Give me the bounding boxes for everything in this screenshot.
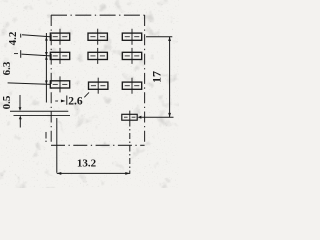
arrowheads on left dim line — [45, 37, 48, 41]
dim extension line row2 left dash — [14, 53, 18, 55]
left vertical dimension line — [45, 33, 47, 103]
terminal slot row2 col C — [122, 48, 141, 64]
dim 4.2 extension line row1 — [22, 35, 50, 37]
dim extension line row2 — [22, 54, 51, 56]
13.2 right arrowhead — [125, 172, 130, 175]
13.2 dimension line — [57, 172, 130, 174]
0.5 top arrowhead — [19, 107, 22, 111]
arrowhead at row2 down — [45, 56, 48, 60]
svg-text:6.3: 6.3 — [1, 61, 13, 75]
outline bottom edge — [51, 144, 145, 146]
svg-text:17: 17 — [149, 71, 163, 83]
17 bottom arrowhead — [168, 113, 171, 117]
bottom pin rectangle — [122, 111, 137, 121]
terminal slot row1 col A — [50, 29, 69, 45]
dim 0.5 upper line — [10, 110, 68, 112]
svg-text:2.6: 2.6 — [68, 96, 83, 108]
left dim line continuation dot — [45, 141, 47, 142]
dim 0.5 lower line (pin top extension) — [14, 115, 71, 117]
dim extension line row3 — [8, 83, 51, 85]
terminal slot row2 col A — [50, 48, 69, 64]
outline left edge — [50, 15, 52, 145]
2.6 extension tick — [66, 96, 68, 105]
svg-text:4.2: 4.2 — [7, 31, 19, 45]
2.6 arrowhead — [61, 100, 66, 103]
dim 4.2 extension line row1 start tick — [20, 34, 22, 38]
extension line from pin to 17 dim — [141, 116, 173, 118]
13.2 left extension line — [56, 118, 58, 173]
left dim line dash-dot continuation — [45, 132, 47, 139]
terminal slot row3 col A — [50, 76, 69, 92]
0.5 top arrow — [19, 95, 21, 108]
2.6 diagonal tick — [84, 92, 89, 97]
13.2 left arrowhead — [57, 172, 62, 175]
terminal slot row2 col B — [88, 48, 107, 64]
outline top edge — [51, 14, 145, 16]
arrowhead at row3 — [45, 81, 48, 85]
terminal slot row1 col B — [88, 29, 107, 45]
terminal slot row1 col C — [122, 29, 141, 45]
17 dim top extension — [146, 36, 172, 38]
17 dim line — [169, 37, 171, 118]
2.6 leader arrow — [55, 100, 58, 102]
pin right arrow (dimension arrow touching pin) — [138, 116, 142, 119]
0.5 bottom arrowhead — [19, 115, 22, 119]
svg-text:13.2: 13.2 — [77, 157, 97, 169]
svg-text:0.5: 0.5 — [1, 95, 13, 109]
terminal slot row3 col B — [89, 78, 108, 94]
0.5 bottom arrow — [19, 119, 21, 128]
13.2 right extension (pin centreline) dashed — [129, 121, 131, 174]
17 top arrowhead — [168, 37, 171, 41]
arrowhead at row2 up — [45, 52, 48, 56]
dim extension line row2 start tick — [20, 50, 22, 58]
terminal slot row3 col C — [122, 78, 141, 94]
outline right edge — [144, 15, 146, 145]
